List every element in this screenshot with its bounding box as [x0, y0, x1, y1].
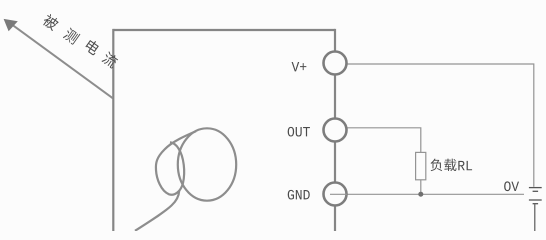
label GND — [288, 190, 294, 200]
terminal GND — [324, 183, 347, 206]
primary conductor wire tail — [135, 191, 179, 231]
terminal OUT — [324, 119, 347, 142]
sensor body outline right edge — [334, 29, 336, 231]
battery cell 2 short plate — [533, 203, 539, 205]
label V+ — [292, 62, 300, 71]
toroid aperture circle — [178, 128, 236, 200]
battery cell 1 long plate — [529, 187, 542, 189]
battery bottom wire stub — [534, 204, 536, 231]
label 被测电流 (measured current) — [41, 13, 119, 69]
measured-current arrow head — [4, 19, 18, 31]
V+ supply wire — [347, 64, 534, 187]
GND wire stub inside terminal — [330, 193, 347, 195]
label 负载RL (load RL) — [431, 159, 457, 171]
OUT wire — [347, 128, 421, 153]
label 0V — [504, 181, 511, 191]
junction node dot — [418, 192, 423, 197]
terminal V+ — [324, 52, 347, 75]
load resistor bottom lead — [420, 180, 422, 195]
sensor body outline top edge — [114, 29, 336, 31]
battery cell 2 long plate — [529, 199, 542, 201]
primary conductor loop through toroid — [156, 131, 196, 195]
load resistor RL — [416, 152, 426, 179]
battery cell 1 short plate — [533, 190, 539, 192]
label OUT — [288, 127, 295, 137]
measured-current arrow shaft — [8, 22, 113, 99]
GND 0V wire — [347, 193, 524, 195]
sensor body outline left edge — [112, 29, 114, 231]
